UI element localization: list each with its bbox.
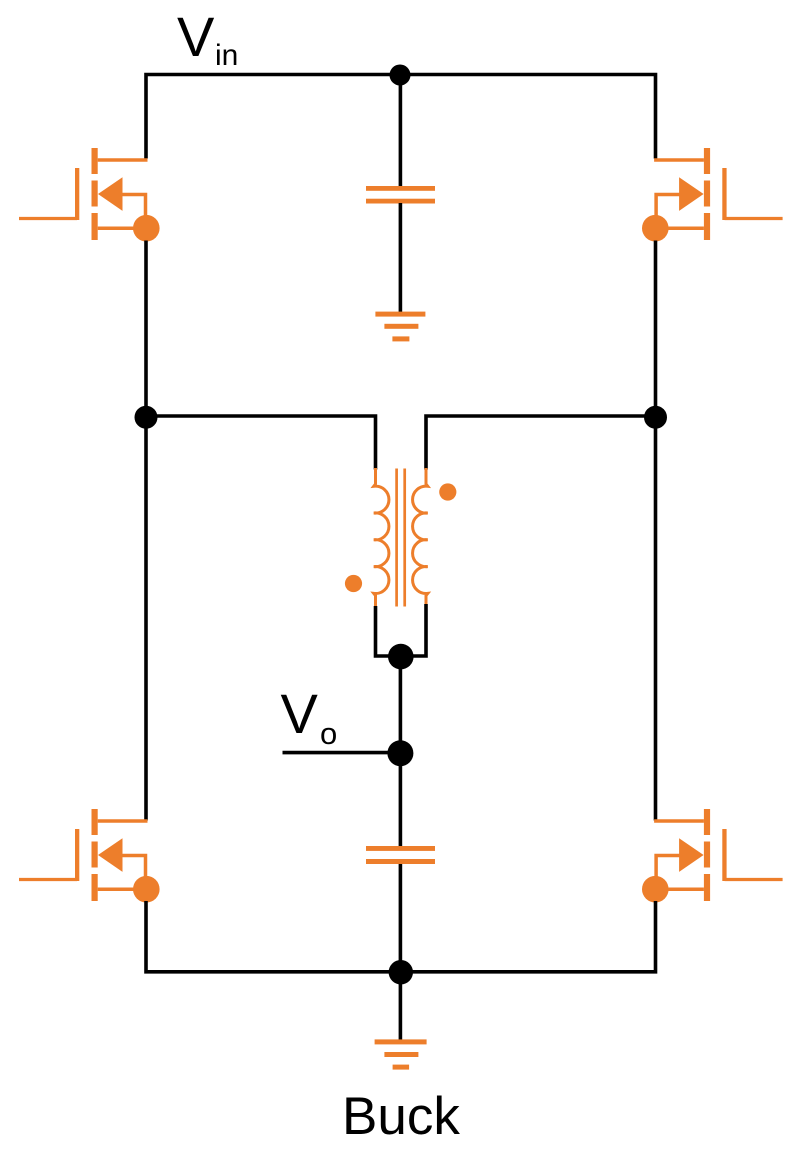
inductor L1 left winding [374, 468, 389, 608]
svg-text:V: V [177, 5, 215, 68]
wire: middle rail left half into transformer left lead [146, 416, 376, 470]
wire: Vin top rail with stubs down to Q1/Q2 drains [146, 75, 656, 159]
label Vin [177, 5, 238, 72]
transistor Q4 (bottom-right MOSFET) [642, 809, 783, 903]
inductor L1 core lines [397, 469, 405, 607]
node: left switch-node junction dot [135, 406, 158, 429]
node: transformer center-tap junction dot [388, 644, 414, 670]
capacitor C1 (input cap) [366, 186, 435, 204]
transistor Q2 (top-right MOSFET) [642, 148, 783, 242]
wire: C2 down to bottom rail [399, 864, 403, 972]
svg-text:V: V [281, 682, 319, 745]
wire: Vo node down to C2 [399, 753, 403, 846]
svg-text:Buck: Buck [342, 1087, 460, 1146]
wire: center-tap down to Vo node [399, 657, 403, 754]
wire: left rail Q3 source to bottom rail, bottom rail, right rail Q4 source [146, 901, 656, 972]
inductor L1 right winding [413, 468, 428, 606]
ground: output ground symbol [375, 1039, 427, 1069]
wire: transformer bottom U connection [376, 604, 427, 656]
transistor Q3 (bottom-left MOSFET) [19, 809, 160, 903]
label Vo [281, 682, 338, 751]
node: right switch-node junction dot [644, 406, 667, 429]
node: bottom rail junction dot [389, 960, 413, 984]
wire: Vin rail down to C1 [399, 75, 403, 187]
node: Vin junction dot [390, 65, 411, 86]
inductor L1 phase dot right [439, 483, 456, 500]
ground: input ground symbol [375, 312, 425, 342]
capacitor C2 (output cap) [366, 846, 435, 864]
wire: Vo output stub [283, 751, 401, 755]
wire: right rail from Q2 source down to Q4 drain [654, 241, 658, 821]
inductor L1 phase dot left [345, 575, 362, 592]
transistor Q1 (top-left MOSFET) [19, 148, 160, 242]
svg-text:o: o [320, 716, 337, 751]
svg-text:in: in [215, 39, 238, 72]
node: Vo junction dot [387, 740, 413, 766]
wire: left rail from Q1 source down to Q3 drain [144, 241, 148, 821]
wire: C1 to ground [399, 203, 403, 313]
wire: middle rail right half into transformer right lead [426, 416, 656, 470]
wire: bottom rail down to output ground [399, 972, 403, 1040]
